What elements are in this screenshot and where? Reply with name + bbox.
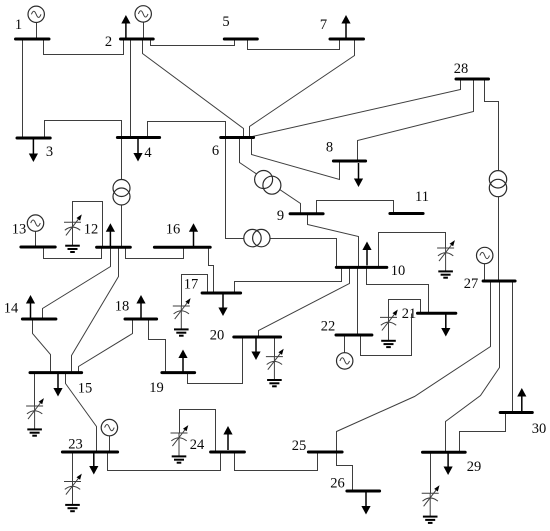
bus 22 [336,334,372,337]
load arrow up bus 12 [106,223,115,247]
wire line 25-27 [337,282,491,453]
bus 18 [125,318,157,321]
svg-text:16: 16 [166,222,181,238]
SVC shunt at bus 24 [171,425,189,463]
load arrow up bus 16 [189,223,198,247]
wire line 2-6 [143,40,244,138]
load arrow up bus 24 [223,426,232,450]
wire line 4-12 via transformer [121,138,123,248]
bus 29 [423,451,466,454]
bus 15 [30,371,82,374]
bus 30 [500,411,532,414]
bus 24 [211,451,245,454]
bus 11 [390,212,423,215]
load arrow up bus 18 [136,295,145,319]
svg-text:22: 22 [321,319,336,335]
load arrow up bus 10 [362,242,371,266]
generator G1 [28,6,44,39]
wire bus21 to SVC shunt [389,300,421,318]
bus 6 [221,136,254,139]
wire line 23-24 [108,453,221,471]
svg-text:17: 17 [184,277,199,293]
load arrow up bus 7 [341,15,350,39]
svg-text:25: 25 [292,438,307,454]
transformer T4-12 [113,180,130,206]
svg-text:27: 27 [464,276,479,292]
wire bus15 to SVC shunt [34,373,36,407]
load arrow down bus 29 [444,451,453,475]
bus 25 [308,451,342,454]
load arrow down bus 15 [53,373,62,397]
SVC shunt at bus 23 [64,474,82,512]
svg-text:6: 6 [212,143,219,159]
bus 2 [121,38,154,41]
svg-text:11: 11 [415,189,429,205]
load arrow down bus 23 [89,451,98,475]
wire line 24-25 [235,453,318,471]
svg-text:3: 3 [46,144,53,160]
SVC shunt at bus 17 [173,298,191,336]
SVC shunt at bus 20 [266,349,284,387]
svg-text:8: 8 [326,140,333,156]
wire line 12-13 [44,248,102,259]
wire line 1-3 [22,40,24,139]
generator G23 [101,419,117,452]
svg-text:15: 15 [78,381,93,397]
load arrow up bus 30 [517,388,526,412]
load arrow down bus 3 [29,138,38,162]
bus 16 [154,246,210,249]
generator G13 [27,215,43,248]
bus 21 [418,312,456,315]
wire line 25-26 [337,453,353,492]
wire line 6-28 [253,80,461,137]
load arrow down bus 8 [354,163,363,187]
svg-text:30: 30 [532,421,547,437]
bus 8 [333,160,365,163]
SVC shunt at bus 21 [380,310,398,348]
bus 20 [234,336,281,339]
wire line 1-2 [44,40,124,55]
wire line 6-7 [250,40,355,138]
bus 13 [21,246,55,249]
bus 27 [483,280,515,283]
wire line 10-22 [357,268,359,336]
svg-text:18: 18 [115,299,130,315]
svg-text:9: 9 [277,208,284,224]
load arrow down bus 20 [251,336,260,360]
wire line 6-10 via transformer [226,138,337,268]
wire line 27-30 [512,282,514,413]
wire line 18-19 [149,320,166,373]
wire line 21-22 [361,314,412,356]
SVC shunt at bus 10 [437,240,455,278]
wire line 9-11 [317,201,394,214]
wire line 10-17 [235,268,342,294]
generator G22 [337,336,353,370]
svg-text:24: 24 [190,437,205,453]
generator G27 [477,247,493,281]
svg-text:10: 10 [391,263,406,279]
svg-text:5: 5 [222,14,229,30]
svg-text:4: 4 [144,145,152,161]
svg-text:14: 14 [4,301,19,317]
wire bus24 to SVC shunt [180,410,216,453]
bus 12 [97,246,131,249]
SVC shunt at bus 15 [26,398,44,436]
transformer T28-27 [489,171,506,197]
bus 14 [22,318,56,321]
wire line 6-9 via transformer [240,138,301,214]
wire line 6-8 [252,139,340,180]
svg-text:12: 12 [84,222,99,238]
load arrow down bus 17 [218,292,227,316]
wire line 14-15 [33,320,51,373]
load arrow up bus 2 [121,15,130,39]
wire line 15-18 [79,320,133,373]
svg-text:23: 23 [68,437,83,453]
wire bus23 to SVC shunt [72,453,74,482]
bus 5 [224,38,257,41]
svg-text:7: 7 [320,17,327,33]
load arrow down bus 26 [361,491,370,515]
svg-text:26: 26 [330,476,345,492]
svg-text:29: 29 [467,459,482,475]
wire line 12-14 [43,248,111,320]
wire bus20 to SVC shunt [274,338,276,357]
bus 4 [117,136,159,139]
SVC shunt at bus 12 [64,214,82,252]
wire line 5-7 [248,40,340,50]
transformer T6-9 [255,171,281,195]
wire bus29 to SVC shunt [430,453,432,494]
bus 17 [202,292,241,295]
wire line 12-16 [126,248,184,259]
wire bus12 to SVC shunt [73,202,103,248]
bus 3 [17,137,50,140]
wire bus17 to SVC shunt [182,275,208,307]
svg-text:1: 1 [15,17,22,33]
wire line 27-29 [446,282,500,453]
bus 10 [336,266,387,269]
transformer T6-10 [244,229,270,246]
wire line 15-23 [66,373,97,453]
wire line 28-27 via transformer [485,80,499,282]
svg-text:19: 19 [149,380,164,396]
wire line 8-28 [358,80,474,162]
load arrow down bus 4 [133,138,142,162]
wire bus10 to SVC shunt [379,233,446,268]
bus 26 [347,490,380,493]
wire line 10-21 [367,268,429,314]
svg-text:13: 13 [12,222,27,238]
load arrow down bus 21 [441,313,450,337]
svg-text:28: 28 [454,61,469,77]
wire line 2-4 [130,40,132,138]
svg-text:21: 21 [402,306,417,322]
wire line 16-17 [209,248,214,294]
bus 1 [16,38,50,41]
wire line 9-10 [308,214,359,268]
wire line 19-20 [188,338,243,384]
SVC shunt at bus 29 [422,485,440,523]
wire line 12-15 [72,248,119,373]
load arrow up bus 14 [26,295,35,319]
bus 28 [456,78,489,81]
wire line 4-6 [148,122,226,138]
svg-text:2: 2 [105,34,112,50]
wire line 29-30 [460,413,506,453]
wire line 2-5 [151,40,235,46]
generator G2 [135,6,151,40]
bus 19 [162,371,195,374]
svg-text:20: 20 [210,328,225,344]
bus 9 [290,212,323,215]
wire line 3-4 [45,121,122,139]
load arrow up bus 19 [178,350,187,374]
bus 23 [62,451,117,454]
bus 7 [330,38,364,41]
wire line 10-20 [259,268,350,338]
